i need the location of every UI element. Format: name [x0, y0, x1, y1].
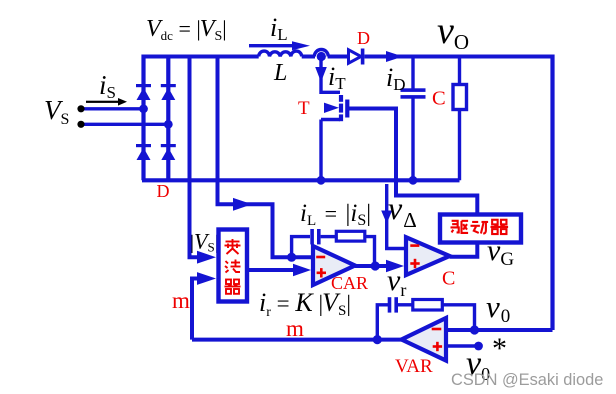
svg-text:C: C: [442, 268, 455, 290]
svg-text:L: L: [273, 60, 287, 86]
glyph 动: [471, 222, 489, 234]
glyph 法: [225, 260, 241, 273]
arrow into comparator + input: [386, 260, 404, 272]
op-amp CAR: [313, 246, 355, 285]
wire: right vertical from v_O down to v_0 node: [550, 55, 554, 331]
transistor T branch: i_T arrow wire: [319, 57, 322, 95]
glyph 驱: [451, 221, 469, 233]
svg-text:*: *: [492, 332, 507, 365]
comparator output wire to driver: [450, 243, 478, 257]
svg-text:T: T: [298, 98, 310, 119]
CAR output node: [355, 264, 387, 268]
bridge rectifier column 2: [166, 55, 170, 181]
multiplier box: [219, 230, 248, 302]
comparator C: [406, 237, 450, 275]
wire: i_L sense path (col4): [218, 55, 312, 258]
op-amp CAR feedback: tap junction: [292, 237, 310, 258]
glyph 器: [225, 280, 241, 294]
current arrow i_S (black): [86, 98, 127, 106]
v_delta input arrow: [387, 184, 406, 249]
wire: source line -: [81, 123, 168, 126]
junction on column1: [139, 104, 148, 113]
svg-text:D: D: [357, 28, 370, 48]
wire: m bus (VAR output): [192, 338, 402, 342]
current arrow i_L: [249, 41, 310, 50]
wire: source line +: [81, 107, 144, 110]
diode bridge D2: [161, 84, 176, 100]
diode bridge D1: [136, 84, 151, 100]
capacitor VAR feedback: [388, 297, 398, 312]
diode bridge D3: [136, 144, 151, 160]
wire: VAR non-inverting input v_0*: [446, 344, 477, 347]
svg-text:D: D: [157, 181, 170, 201]
arrow on output wire: [386, 51, 403, 62]
wire: m feedback up into multiplier input 2: [192, 279, 198, 340]
junction: CAR inverting input node: [287, 253, 296, 262]
svg-text:|VS|: |VS|: [190, 229, 219, 255]
op-amp VAR feedback: [377, 305, 388, 340]
wire: bottom bus of power stage: [142, 178, 460, 182]
diode D (boost diode): [349, 49, 365, 65]
op-amp VAR: [402, 318, 447, 361]
driver box: [440, 215, 521, 243]
capacitor CAR feedback: [310, 229, 320, 244]
junction: drain leg on bottom bus: [317, 176, 326, 185]
svg-text:m: m: [286, 316, 304, 341]
capacitor C branch: [411, 55, 414, 181]
svg-text:CSDN @Esaki diode: CSDN @Esaki diode: [451, 371, 603, 389]
wire: VAR inverting input from v_0: [446, 328, 553, 332]
node: wire hump + junction at drain branch: [314, 50, 328, 57]
resistor CAR feedback: [336, 231, 365, 241]
glyph 乘: [225, 239, 241, 254]
svg-text:C: C: [432, 88, 446, 110]
svg-text:m: m: [172, 288, 190, 313]
wire: driver output to gate: [347, 109, 477, 215]
glyph 器 (driver): [491, 220, 509, 234]
resistor VAR feedback: [413, 300, 443, 311]
junction: VAR output node: [373, 335, 382, 344]
svg-text:VAR: VAR: [395, 356, 433, 377]
bridge rectifier column 1: [141, 55, 145, 181]
arrow into multiplier input 1: [197, 251, 216, 264]
wire: top bus V_dc node: [144, 55, 553, 59]
multiplier output wire to CAR + input: [247, 268, 296, 272]
wire: |Vs| sense column (col3): [190, 55, 199, 258]
diode bridge D4: [161, 144, 176, 160]
arrow on i_L sense wire: [233, 198, 252, 211]
junction: capacitor leg on bottom bus: [409, 176, 418, 185]
svg-text:ir = K |VS|: ir = K |VS|: [259, 288, 351, 320]
inductor L: [259, 51, 302, 56]
junction on column2: [164, 120, 173, 129]
terminal dots of source: [77, 105, 84, 112]
resistor load branch: [458, 55, 461, 181]
transistor T (MOSFET): [321, 92, 340, 180]
